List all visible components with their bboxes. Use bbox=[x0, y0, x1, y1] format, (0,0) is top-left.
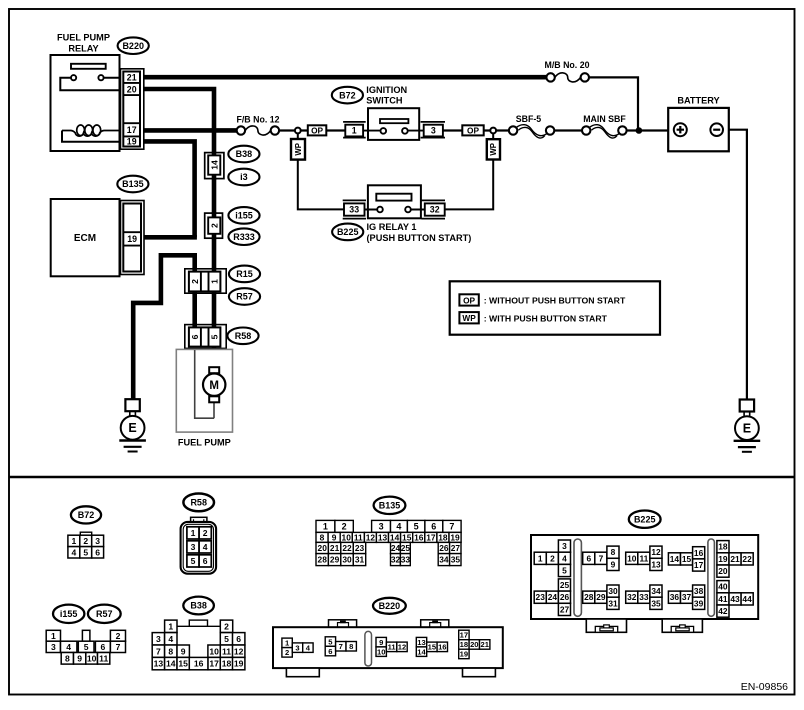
svg-text:1: 1 bbox=[168, 621, 173, 631]
connector B220 pin strip bbox=[121, 69, 144, 149]
svg-text:12: 12 bbox=[398, 643, 406, 652]
svg-text:33: 33 bbox=[401, 555, 411, 565]
svg-text:6: 6 bbox=[586, 553, 591, 563]
wire B220 pin21 to M/B No.20 fuse (thick) bbox=[141, 75, 546, 80]
svg-text:4: 4 bbox=[72, 547, 77, 557]
svg-text:R15: R15 bbox=[236, 269, 253, 279]
svg-text:13: 13 bbox=[417, 638, 425, 647]
svg-text:26: 26 bbox=[439, 543, 449, 553]
svg-text:2: 2 bbox=[285, 648, 289, 657]
connector view B225 label (oval) bbox=[629, 511, 661, 528]
svg-text:4: 4 bbox=[562, 553, 567, 563]
svg-text:FUEL PUMP: FUEL PUMP bbox=[178, 438, 231, 448]
svg-text:B38: B38 bbox=[190, 601, 207, 611]
svg-text:9: 9 bbox=[181, 646, 186, 656]
svg-text:9: 9 bbox=[77, 653, 82, 663]
svg-text:20: 20 bbox=[318, 543, 328, 553]
svg-text:15: 15 bbox=[428, 643, 437, 652]
connector view B38 pin grid bbox=[152, 620, 245, 670]
connector view B135 label (oval) bbox=[374, 497, 406, 514]
svg-text:21: 21 bbox=[730, 554, 740, 564]
ground E right (battery) bbox=[734, 400, 761, 452]
svg-text:33: 33 bbox=[639, 592, 649, 602]
svg-text:5: 5 bbox=[210, 334, 220, 339]
connector B135 pin strip bbox=[121, 201, 145, 275]
svg-text:29: 29 bbox=[596, 592, 606, 602]
svg-text:19: 19 bbox=[718, 554, 728, 564]
svg-text:10: 10 bbox=[87, 653, 97, 663]
wire node to OP to ignition switch pin1 bbox=[301, 129, 346, 131]
svg-text:8: 8 bbox=[611, 547, 616, 557]
wire WP branch right: node down, IG relay pin32 to WP bbox=[445, 133, 494, 209]
pump housing internal wire bbox=[195, 350, 214, 418]
connector label i3 (oval) bbox=[228, 169, 259, 186]
svg-text:30: 30 bbox=[342, 555, 352, 565]
svg-text:5: 5 bbox=[562, 566, 567, 576]
svg-text:21: 21 bbox=[330, 543, 340, 553]
relay contact wiring bbox=[60, 78, 120, 91]
svg-text:6: 6 bbox=[190, 334, 200, 339]
inline connector R15/R57 (pins 2,1) bbox=[185, 269, 226, 293]
svg-text:10: 10 bbox=[627, 553, 637, 563]
svg-text:37: 37 bbox=[682, 592, 692, 602]
svg-text:18: 18 bbox=[438, 532, 448, 542]
IG relay 1 U2 bbox=[365, 185, 425, 218]
svg-text:WP: WP bbox=[294, 143, 303, 156]
svg-text:4: 4 bbox=[203, 542, 208, 552]
wire F/B No.12 fuse to node bbox=[279, 129, 295, 131]
svg-text:10: 10 bbox=[209, 646, 219, 656]
svg-text:8: 8 bbox=[320, 532, 325, 542]
connector view B220 label (oval) bbox=[373, 598, 406, 614]
IG relay pin 33 bbox=[343, 200, 366, 218]
connector view B38 label (oval) bbox=[183, 597, 214, 615]
OP tag left bbox=[308, 125, 327, 135]
svg-text:15: 15 bbox=[178, 659, 188, 669]
connector view B220 housing bbox=[273, 620, 503, 677]
wire SBF-5 to MAIN SBF bbox=[554, 129, 582, 131]
svg-text:24: 24 bbox=[548, 592, 558, 602]
svg-text:1: 1 bbox=[538, 553, 543, 563]
svg-text:IG RELAY 1: IG RELAY 1 bbox=[367, 222, 417, 232]
svg-text:OP: OP bbox=[467, 126, 479, 136]
svg-text:: WITH PUSH BUTTON START: : WITH PUSH BUTTON START bbox=[484, 313, 608, 323]
svg-text:43: 43 bbox=[730, 594, 740, 604]
svg-text:11: 11 bbox=[639, 553, 648, 563]
relay contact points bbox=[71, 75, 76, 80]
svg-text:7: 7 bbox=[339, 642, 343, 651]
wire B220 pin17 to F/B No.12 fuse (thick) bbox=[141, 128, 237, 133]
svg-text:9: 9 bbox=[611, 559, 616, 569]
svg-text:19: 19 bbox=[234, 659, 244, 669]
connector label B38 (oval) bbox=[228, 146, 259, 163]
svg-text:RELAY: RELAY bbox=[68, 44, 98, 54]
svg-text:2: 2 bbox=[550, 553, 555, 563]
svg-text:11: 11 bbox=[222, 646, 231, 656]
svg-text:E: E bbox=[128, 421, 136, 435]
svg-text:B225: B225 bbox=[634, 514, 656, 524]
svg-text:2: 2 bbox=[224, 621, 229, 631]
svg-text:8: 8 bbox=[168, 646, 173, 656]
wire R58 pin5 to fuel pump motor bbox=[213, 347, 215, 368]
svg-text:ECM: ECM bbox=[74, 233, 96, 244]
svg-text:i3: i3 bbox=[240, 172, 248, 182]
svg-text:5: 5 bbox=[414, 522, 419, 532]
svg-text:10: 10 bbox=[377, 647, 385, 656]
svg-text:6: 6 bbox=[203, 556, 208, 566]
svg-text:2: 2 bbox=[342, 522, 347, 532]
svg-text:19: 19 bbox=[127, 137, 137, 147]
svg-text:B225: B225 bbox=[337, 227, 359, 237]
svg-text:32: 32 bbox=[430, 205, 440, 215]
relay coil to pin 19 wiring bbox=[62, 131, 120, 142]
wire R15/R57 pin1 to R58 pin5 (thick) bbox=[212, 290, 217, 329]
svg-text:21: 21 bbox=[127, 73, 137, 83]
wire ECM pin19 (thick) bbox=[141, 235, 197, 240]
svg-text:19: 19 bbox=[450, 532, 460, 542]
svg-text:: WITHOUT PUSH BUTTON START: : WITHOUT PUSH BUTTON START bbox=[484, 296, 626, 306]
OP legend tag bbox=[459, 294, 478, 305]
svg-text:4: 4 bbox=[168, 634, 173, 644]
svg-text:31: 31 bbox=[608, 598, 618, 608]
svg-text:5: 5 bbox=[224, 634, 229, 644]
WP legend tag bbox=[459, 312, 478, 323]
svg-text:29: 29 bbox=[330, 555, 340, 565]
svg-text:7: 7 bbox=[116, 642, 121, 652]
svg-text:OP: OP bbox=[311, 126, 323, 136]
svg-text:23: 23 bbox=[355, 543, 365, 553]
svg-text:3: 3 bbox=[295, 643, 299, 652]
svg-text:17: 17 bbox=[209, 659, 219, 669]
svg-text:23: 23 bbox=[536, 592, 546, 602]
svg-text:14: 14 bbox=[166, 659, 176, 669]
svg-text:16: 16 bbox=[194, 659, 204, 669]
svg-text:8: 8 bbox=[65, 653, 70, 663]
connector view R57 label (oval) bbox=[88, 605, 121, 623]
wire B220 pin20 down through B38/i3 and i155/R333 connectors to R15/R57 pin1 (thick) bbox=[141, 89, 214, 270]
svg-text:15: 15 bbox=[682, 554, 692, 564]
fuel pump assembly bbox=[176, 349, 232, 432]
relay contact fixed bar bbox=[71, 64, 106, 69]
svg-text:M/B No. 20: M/B No. 20 bbox=[545, 60, 590, 70]
svg-text:2: 2 bbox=[116, 631, 121, 641]
wire stubs through connector 14 bracket bbox=[212, 152, 217, 180]
svg-text:5: 5 bbox=[191, 556, 196, 566]
svg-text:3: 3 bbox=[431, 126, 436, 136]
svg-text:6: 6 bbox=[431, 522, 436, 532]
svg-text:1: 1 bbox=[323, 522, 328, 532]
svg-text:3: 3 bbox=[156, 634, 161, 644]
svg-text:5: 5 bbox=[84, 642, 89, 652]
connector view B135 pin grid bbox=[316, 520, 461, 565]
svg-text:19: 19 bbox=[460, 650, 468, 659]
svg-text:R57: R57 bbox=[236, 292, 253, 302]
svg-text:3: 3 bbox=[51, 642, 56, 652]
svg-text:17: 17 bbox=[426, 532, 436, 542]
fuse M/B No.20 bbox=[545, 60, 590, 82]
svg-text:3: 3 bbox=[562, 541, 567, 551]
svg-text:14: 14 bbox=[209, 160, 219, 170]
svg-text:15: 15 bbox=[402, 532, 412, 542]
OP tag right bbox=[462, 125, 483, 135]
svg-text:IGNITION: IGNITION bbox=[366, 85, 407, 95]
svg-text:OP: OP bbox=[463, 295, 475, 305]
ground E left (fuel pump circuit) bbox=[119, 399, 146, 451]
svg-text:39: 39 bbox=[694, 598, 704, 608]
connector label R15 (oval) bbox=[229, 266, 260, 283]
svg-text:16: 16 bbox=[414, 532, 424, 542]
svg-text:26: 26 bbox=[560, 592, 570, 602]
IG relay pin 32 bbox=[421, 200, 445, 218]
svg-text:24: 24 bbox=[391, 543, 401, 553]
svg-text:3: 3 bbox=[191, 542, 196, 552]
connector label R333 (oval) bbox=[228, 228, 259, 245]
wire stubs through connector R58 bracket bbox=[195, 324, 214, 350]
svg-text:2: 2 bbox=[209, 223, 219, 228]
svg-text:13: 13 bbox=[651, 559, 661, 569]
wire B220 pin19 down to ECM pin19 wire (thick) bbox=[141, 141, 195, 237]
svg-text:18: 18 bbox=[460, 640, 468, 649]
svg-text:WP: WP bbox=[489, 143, 498, 156]
connector label R58 (oval) bbox=[227, 328, 258, 345]
svg-text:1: 1 bbox=[72, 536, 77, 546]
svg-text:17: 17 bbox=[694, 560, 704, 570]
ignition switch pin 3 bbox=[421, 122, 445, 138]
svg-text:6: 6 bbox=[95, 547, 100, 557]
svg-text:B220: B220 bbox=[379, 601, 401, 611]
svg-text:9: 9 bbox=[379, 638, 383, 647]
wire MAIN SBF to junction to battery plus bbox=[627, 129, 674, 131]
wire WP branch left: node down to IG relay pin33 bbox=[298, 133, 344, 209]
svg-text:20: 20 bbox=[718, 566, 728, 576]
wire R15/R57 pin2 to R58 pin6 (thick) bbox=[192, 290, 197, 329]
fuel pump relay box bbox=[51, 55, 121, 151]
svg-text:12: 12 bbox=[234, 646, 244, 656]
svg-text:18: 18 bbox=[718, 542, 728, 552]
svg-text:14: 14 bbox=[417, 647, 426, 656]
svg-text:27: 27 bbox=[560, 604, 570, 614]
svg-text:4: 4 bbox=[396, 522, 401, 532]
svg-text:2: 2 bbox=[83, 536, 88, 546]
connector view R58 shell bbox=[181, 517, 217, 573]
connector view R58 label (oval) bbox=[183, 494, 214, 512]
connector view B72 label (oval) bbox=[71, 506, 101, 523]
svg-text:R333: R333 bbox=[233, 232, 255, 242]
svg-text:11: 11 bbox=[99, 653, 108, 663]
svg-text:19: 19 bbox=[127, 234, 137, 244]
svg-text:32: 32 bbox=[627, 592, 637, 602]
connector view B72 pin grid bbox=[68, 532, 104, 558]
svg-text:12: 12 bbox=[651, 547, 661, 557]
inline connector R58 (pins 6,5) bbox=[185, 325, 226, 349]
svg-text:18: 18 bbox=[222, 659, 232, 669]
svg-text:B135: B135 bbox=[379, 501, 401, 511]
svg-text:R58: R58 bbox=[235, 331, 252, 341]
svg-text:34: 34 bbox=[439, 555, 449, 565]
inline connector B38/i3 (pin 14) bbox=[205, 153, 224, 179]
svg-text:F/B No. 12: F/B No. 12 bbox=[236, 114, 279, 124]
wire ignition switch pin3 to OP to node to SBF-5 bbox=[443, 129, 509, 131]
svg-text:21: 21 bbox=[480, 640, 489, 649]
svg-text:2: 2 bbox=[190, 279, 200, 284]
svg-text:40: 40 bbox=[718, 582, 728, 592]
svg-text:1: 1 bbox=[352, 126, 357, 136]
svg-text:35: 35 bbox=[451, 555, 461, 565]
relay coil bbox=[77, 125, 85, 136]
svg-text:41: 41 bbox=[718, 594, 728, 604]
svg-text:30: 30 bbox=[608, 586, 618, 596]
svg-text:R58: R58 bbox=[190, 498, 207, 508]
svg-text:B220: B220 bbox=[122, 41, 144, 51]
svg-text:20: 20 bbox=[127, 84, 137, 94]
svg-text:14: 14 bbox=[390, 532, 400, 542]
fuse F/B No.12 bbox=[236, 114, 279, 135]
svg-text:38: 38 bbox=[694, 586, 704, 596]
svg-text:22: 22 bbox=[742, 554, 752, 564]
svg-text:(PUSH BUTTON START): (PUSH BUTTON START) bbox=[367, 233, 472, 243]
svg-text:B72: B72 bbox=[78, 510, 95, 520]
svg-text:28: 28 bbox=[584, 592, 594, 602]
svg-text:6: 6 bbox=[236, 634, 241, 644]
svg-text:MAIN SBF: MAIN SBF bbox=[583, 114, 626, 124]
svg-text:3: 3 bbox=[95, 536, 100, 546]
wire R57 pin2 to left ground (thick) bbox=[133, 255, 195, 399]
svg-text:7: 7 bbox=[156, 646, 161, 656]
svg-text:25: 25 bbox=[401, 543, 411, 553]
ECM box bbox=[51, 199, 120, 276]
svg-text:11: 11 bbox=[388, 643, 397, 652]
svg-text:42: 42 bbox=[718, 606, 728, 616]
svg-text:27: 27 bbox=[451, 543, 461, 553]
wire M/B No.20 fuse to junction above battery bbox=[589, 77, 638, 131]
svg-text:11: 11 bbox=[354, 532, 363, 542]
svg-text:31: 31 bbox=[355, 555, 365, 565]
inline connector i155/R333 (pin 2) bbox=[205, 213, 223, 238]
svg-text:4: 4 bbox=[66, 642, 71, 652]
svg-text:12: 12 bbox=[366, 532, 376, 542]
svg-text:3: 3 bbox=[379, 522, 384, 532]
svg-text:E: E bbox=[743, 421, 751, 435]
svg-text:35: 35 bbox=[651, 598, 661, 608]
svg-text:BATTERY: BATTERY bbox=[677, 95, 719, 105]
svg-text:16: 16 bbox=[438, 643, 446, 652]
svg-text:1: 1 bbox=[51, 631, 56, 641]
node circle right bbox=[490, 128, 496, 134]
svg-text:34: 34 bbox=[651, 586, 661, 596]
svg-text:5: 5 bbox=[83, 547, 88, 557]
svg-text:20: 20 bbox=[470, 640, 478, 649]
node circle left bbox=[295, 128, 301, 134]
svg-text:22: 22 bbox=[342, 543, 352, 553]
WP tag right bbox=[487, 139, 500, 159]
svg-text:EN-09856: EN-09856 bbox=[741, 681, 788, 693]
svg-text:14: 14 bbox=[670, 554, 680, 564]
ignition switch U1 bbox=[363, 108, 424, 140]
svg-text:SBF-5: SBF-5 bbox=[516, 114, 542, 124]
svg-text:6: 6 bbox=[328, 647, 332, 656]
connector label R57 (oval) bbox=[229, 288, 260, 305]
svg-text:7: 7 bbox=[449, 522, 454, 532]
junction node bbox=[636, 127, 643, 134]
ignition switch pin 1 bbox=[343, 122, 366, 138]
svg-text:2: 2 bbox=[203, 528, 208, 538]
svg-text:B38: B38 bbox=[236, 149, 253, 159]
connector label B220 (oval) bbox=[118, 37, 149, 54]
fuse MAIN SBF bbox=[582, 114, 627, 138]
wire stubs through connector 2 bracket bbox=[212, 212, 217, 239]
svg-text:13: 13 bbox=[378, 532, 388, 542]
connector label i155 (oval) bbox=[228, 207, 259, 224]
svg-text:1: 1 bbox=[210, 279, 220, 284]
svg-text:36: 36 bbox=[670, 592, 680, 602]
connector view i155 label (oval) bbox=[53, 605, 84, 623]
connector label B72 (oval) bbox=[332, 87, 363, 104]
svg-text:10: 10 bbox=[342, 532, 352, 542]
connector view B225 housing bbox=[531, 535, 758, 632]
svg-text:13: 13 bbox=[154, 659, 164, 669]
separator line between schematic and connector views bbox=[9, 476, 795, 479]
svg-text:28: 28 bbox=[318, 555, 328, 565]
svg-text:WP: WP bbox=[462, 313, 476, 323]
wire battery minus down to ground bbox=[723, 130, 747, 400]
svg-text:17: 17 bbox=[127, 125, 137, 135]
svg-text:R57: R57 bbox=[96, 609, 113, 619]
svg-text:1: 1 bbox=[191, 528, 196, 538]
svg-text:i155: i155 bbox=[60, 609, 78, 619]
svg-text:8: 8 bbox=[349, 642, 353, 651]
svg-text:33: 33 bbox=[349, 205, 359, 215]
svg-text:B72: B72 bbox=[339, 90, 356, 100]
svg-text:i155: i155 bbox=[235, 211, 253, 221]
svg-text:B135: B135 bbox=[122, 179, 144, 189]
connector view i155/R57 pin grid bbox=[46, 630, 125, 664]
connector label B135 (oval) bbox=[117, 176, 148, 193]
svg-text:25: 25 bbox=[560, 580, 570, 590]
svg-text:9: 9 bbox=[332, 532, 337, 542]
battery BT1 bbox=[668, 95, 729, 151]
svg-text:SWITCH: SWITCH bbox=[366, 96, 403, 106]
svg-text:32: 32 bbox=[391, 555, 401, 565]
svg-text:M: M bbox=[209, 380, 219, 392]
svg-text:16: 16 bbox=[694, 548, 704, 558]
svg-text:6: 6 bbox=[101, 642, 106, 652]
WP tag left bbox=[291, 139, 305, 160]
wire stubs through connector R15/R57 bracket bbox=[195, 268, 214, 294]
svg-text:7: 7 bbox=[599, 553, 604, 563]
svg-text:44: 44 bbox=[742, 594, 752, 604]
svg-text:FUEL PUMP: FUEL PUMP bbox=[57, 33, 110, 43]
svg-text:17: 17 bbox=[460, 631, 468, 640]
fuse SBF-5 bbox=[509, 114, 554, 138]
legend box bbox=[450, 281, 660, 334]
motor M1 bbox=[209, 367, 219, 373]
connector label B225 (oval) bbox=[332, 224, 363, 241]
